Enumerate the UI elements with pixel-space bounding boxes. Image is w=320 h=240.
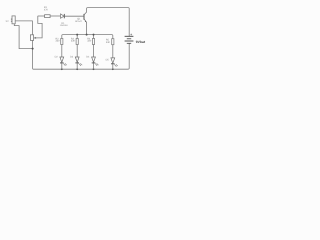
svg-text:470: 470 <box>44 9 49 12</box>
svg-text:330: 330 <box>71 40 76 43</box>
svg-text:330: 330 <box>56 40 61 43</box>
svg-text:330: 330 <box>87 40 92 43</box>
svg-text:9V: 9V <box>6 20 9 23</box>
svg-text:BC547: BC547 <box>75 20 82 23</box>
svg-text:9Vbat: 9Vbat <box>136 40 146 44</box>
svg-text:1N4148: 1N4148 <box>60 24 68 27</box>
svg-text:330: 330 <box>106 41 111 44</box>
